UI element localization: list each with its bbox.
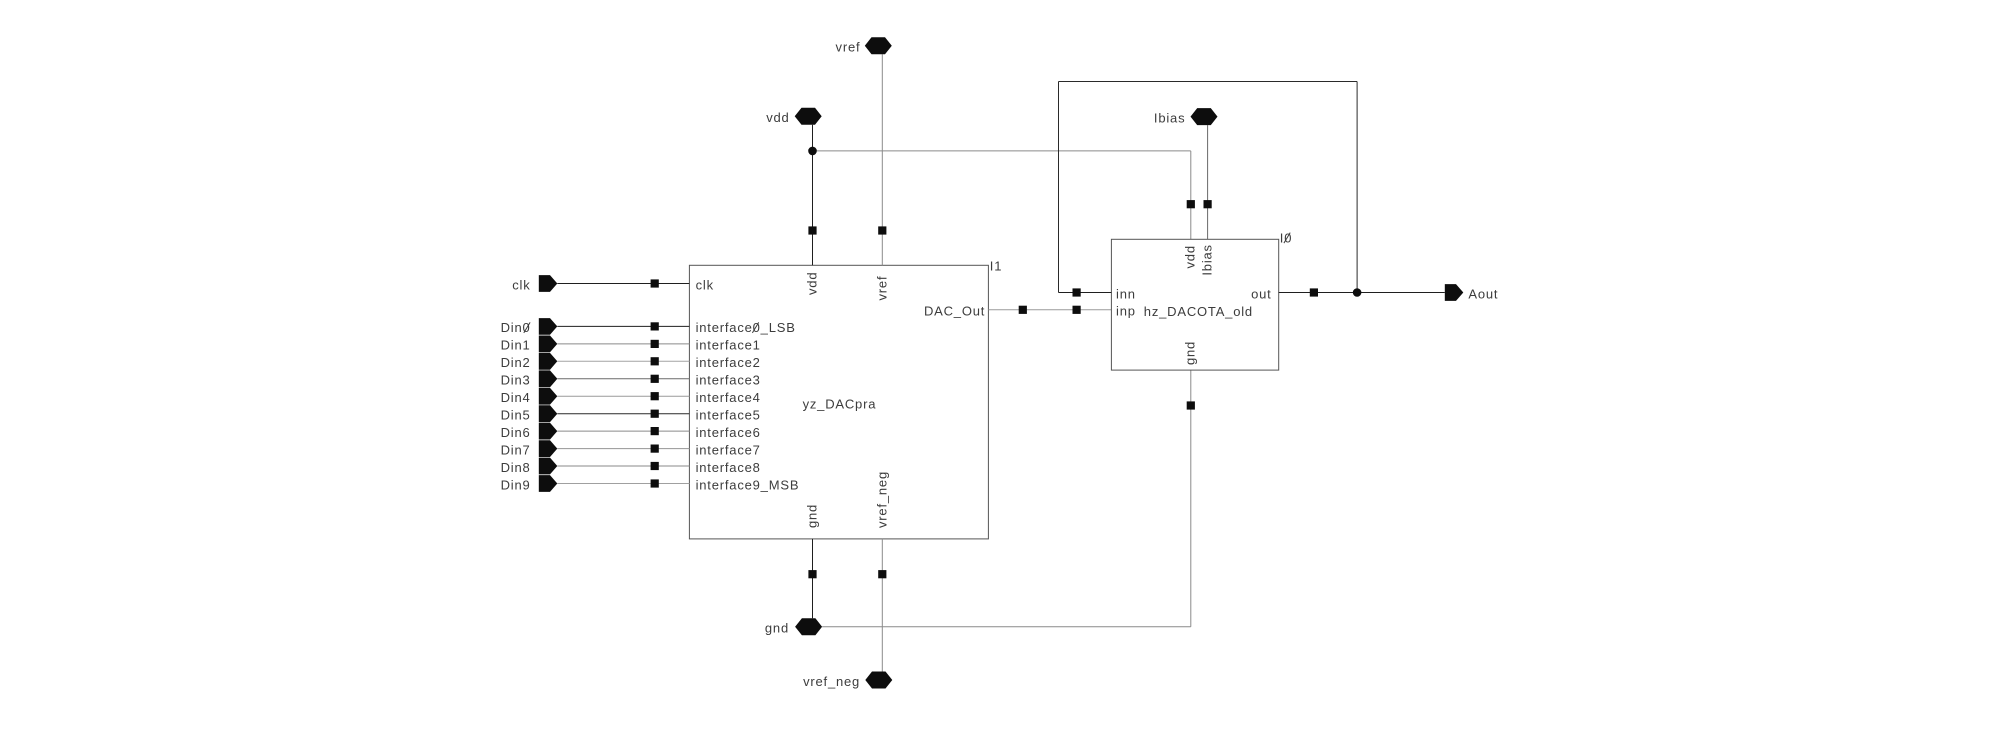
svg-text:vref: vref <box>874 276 889 301</box>
pin square interface3 <box>651 375 659 383</box>
svg-text:vref: vref <box>836 40 861 55</box>
svg-text:interface2: interface2 <box>696 355 761 370</box>
pin square inn I0 <box>1073 288 1081 296</box>
wire gnd horizontal <box>822 626 1191 628</box>
input pin clk <box>539 275 558 292</box>
pin square out I0 <box>1310 288 1318 296</box>
svg-text:vdd: vdd <box>766 110 789 125</box>
pin square inp I0 <box>1073 306 1081 314</box>
inout pin vdd <box>795 108 822 125</box>
slashed-zero mark interface0 <box>752 322 758 333</box>
wire Din5 net <box>557 413 689 415</box>
wire out net <box>1279 292 1445 294</box>
wire clk net <box>557 283 689 285</box>
junction out <box>1353 288 1362 297</box>
wire vdd down to I0 vdd pin <box>1190 151 1192 239</box>
wire Din4 net <box>557 395 689 397</box>
wire vref_neg vertical <box>881 539 883 672</box>
input pin Din4 <box>539 388 558 405</box>
wire DAC_Out net <box>988 309 1111 311</box>
input pin Din1 <box>539 336 558 353</box>
wire inn segment <box>1059 292 1112 294</box>
svg-text:vref_neg: vref_neg <box>875 471 890 528</box>
svg-text:Din3: Din3 <box>501 373 531 388</box>
inout pin gnd <box>795 618 822 635</box>
wire gnd vertical I1 <box>812 539 814 618</box>
pin square vdd I0 <box>1187 200 1195 208</box>
wire Din7 net <box>557 448 689 450</box>
wire vref vertical <box>881 54 883 265</box>
pin square Ibias I0 <box>1204 200 1212 208</box>
pin square gnd I1 <box>808 570 816 578</box>
svg-text:interface0_LSB: interface0_LSB <box>696 320 796 335</box>
wire vdd vertical <box>812 125 814 265</box>
svg-text:Din1: Din1 <box>501 338 531 353</box>
input pin Din7 <box>539 440 558 457</box>
svg-text:interface8: interface8 <box>696 460 761 475</box>
inout pin vref <box>865 37 892 54</box>
wire feedback right vertical <box>1356 82 1358 293</box>
input pin Din9 <box>539 475 558 492</box>
pin square interface9 <box>651 479 659 487</box>
svg-text:interface9_MSB: interface9_MSB <box>696 477 800 492</box>
svg-text:I1: I1 <box>990 258 1002 273</box>
svg-text:Din4: Din4 <box>501 390 531 405</box>
pin square interface0 <box>651 322 659 330</box>
svg-text:clk: clk <box>512 277 530 292</box>
pin square interface6 <box>651 427 659 435</box>
svg-text:interface6: interface6 <box>696 425 761 440</box>
svg-text:inp: inp <box>1116 304 1136 319</box>
svg-text:interface1: interface1 <box>696 338 761 353</box>
pin square interface5 <box>651 410 659 418</box>
wire Din3 net <box>557 378 689 380</box>
svg-text:vdd: vdd <box>804 272 819 295</box>
svg-text:interface7: interface7 <box>696 442 761 457</box>
block I0 hz_DACOTA_old body <box>1111 239 1278 370</box>
inout pin Ibias <box>1191 108 1218 125</box>
svg-text:Din7: Din7 <box>501 442 531 457</box>
svg-text:gnd: gnd <box>1183 341 1198 365</box>
wire Din1 net <box>557 343 689 345</box>
input pin Din5 <box>539 405 558 422</box>
pin square interface7 <box>651 445 659 453</box>
pin square vref_neg <box>878 570 886 578</box>
svg-text:vdd: vdd <box>1183 245 1198 268</box>
input pin Din8 <box>539 458 558 475</box>
inout pin vref_neg <box>865 672 892 689</box>
pin square vdd I1 <box>808 226 816 234</box>
svg-text:inn: inn <box>1116 286 1136 301</box>
wire Din9 net <box>557 483 689 485</box>
svg-text:Ibias: Ibias <box>1154 110 1185 125</box>
svg-text:Din9: Din9 <box>501 477 531 492</box>
svg-text:Din6: Din6 <box>501 425 531 440</box>
output pin Aout <box>1445 284 1464 301</box>
wire feedback top horizontal <box>1059 81 1358 83</box>
pin square vref <box>878 226 886 234</box>
svg-text:clk: clk <box>696 277 714 292</box>
svg-text:DAC_Out: DAC_Out <box>924 304 985 319</box>
svg-text:interface4: interface4 <box>696 390 761 405</box>
pin square interface2 <box>651 357 659 365</box>
svg-text:Din0: Din0 <box>501 320 531 335</box>
svg-text:yz_DACpra: yz_DACpra <box>803 397 877 412</box>
wire feedback left vertical <box>1058 82 1060 293</box>
wire vdd horizontal to I0 <box>813 150 1191 152</box>
svg-text:Din8: Din8 <box>501 460 531 475</box>
pin square interface4 <box>651 392 659 400</box>
svg-text:Aout: Aout <box>1468 286 1498 301</box>
svg-text:Din2: Din2 <box>501 355 531 370</box>
slashed-zero mark I0 <box>1284 233 1290 244</box>
input pin Din2 <box>539 353 558 370</box>
pin square interface8 <box>651 462 659 470</box>
svg-text:Ibias: Ibias <box>1199 244 1214 275</box>
wire Din8 net <box>557 465 689 467</box>
svg-text:interface3: interface3 <box>696 373 761 388</box>
pin square gnd I0 <box>1187 401 1195 409</box>
pin square interface1 <box>651 340 659 348</box>
svg-text:interface5: interface5 <box>696 408 761 423</box>
svg-text:gnd: gnd <box>765 621 789 636</box>
svg-text:Din5: Din5 <box>501 408 531 423</box>
svg-text:hz_DACOTA_old: hz_DACOTA_old <box>1144 304 1253 319</box>
wire Din0 net <box>557 325 689 327</box>
slashed-zero mark Din0 <box>524 322 530 333</box>
input pin Din6 <box>539 423 558 440</box>
input pin Din0 <box>539 318 558 335</box>
svg-text:vref_neg: vref_neg <box>803 674 860 689</box>
wire Ibias vertical <box>1207 125 1209 239</box>
wire Din6 net <box>557 430 689 432</box>
junction vdd <box>808 147 817 156</box>
wire gnd vertical I0 <box>1190 370 1192 627</box>
svg-text:out: out <box>1251 286 1271 301</box>
svg-text:gnd: gnd <box>804 504 819 528</box>
block I1 yz_DACpra body <box>689 265 988 539</box>
pin square DAC_Out <box>1019 306 1027 314</box>
pin square clk <box>651 279 659 287</box>
wire Din2 net <box>557 360 689 362</box>
input pin Din3 <box>539 370 558 387</box>
